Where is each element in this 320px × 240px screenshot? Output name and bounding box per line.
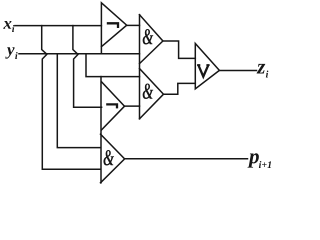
AND gate U5 triangle — [101, 134, 125, 183]
wire x_i branch at x=42 with crossover jog down to AND3 lower input — [42, 26, 101, 170]
OR gate U6 triangle — [195, 44, 219, 89]
NOT symbol in U4 — [106, 104, 117, 108]
output label z_i — [257, 64, 266, 74]
wire NOT1 output to AND1 — [127, 24, 140, 26]
wire y_i branch at x=57 down to AND3 upper input — [57, 54, 100, 148]
input label x_i — [3, 21, 11, 29]
wire input x_i horizontal — [15, 25, 101, 27]
NOT gate U4 triangle — [102, 82, 125, 130]
wire NOT2 output to AND2 — [125, 105, 140, 107]
output label p_i+1 — [248, 153, 259, 167]
wire input y_i horizontal — [19, 53, 140, 55]
wire AND3 output to p_i+1 — [125, 158, 248, 160]
wire shared left edge of U4 and U5 — [100, 77, 102, 183]
NOT gate U1 triangle — [101, 3, 126, 54]
AND symbol in U5 — [103, 150, 114, 166]
AND symbol in U2 — [143, 29, 154, 45]
wire AND2 output jog up to OR bottom input — [164, 83, 196, 94]
wire shared left edge of U2 and U3 — [139, 15, 141, 119]
AND gate U2 triangle — [140, 15, 163, 64]
input label y_i — [5, 47, 14, 58]
wire OR output to z_i — [219, 70, 256, 72]
wire x_i branch at x=73 with crossover jog down to NOT2 input — [73, 26, 102, 108]
wire AND1 output jog down to OR top input — [163, 41, 195, 58]
AND gate U3 triangle — [140, 69, 164, 119]
wire y_i branch at x=86 down to AND2 upper input — [86, 54, 140, 77]
AND symbol in U3 — [143, 83, 154, 99]
NOT symbol in U1 — [107, 23, 118, 28]
OR symbol in U6 — [197, 65, 210, 77]
